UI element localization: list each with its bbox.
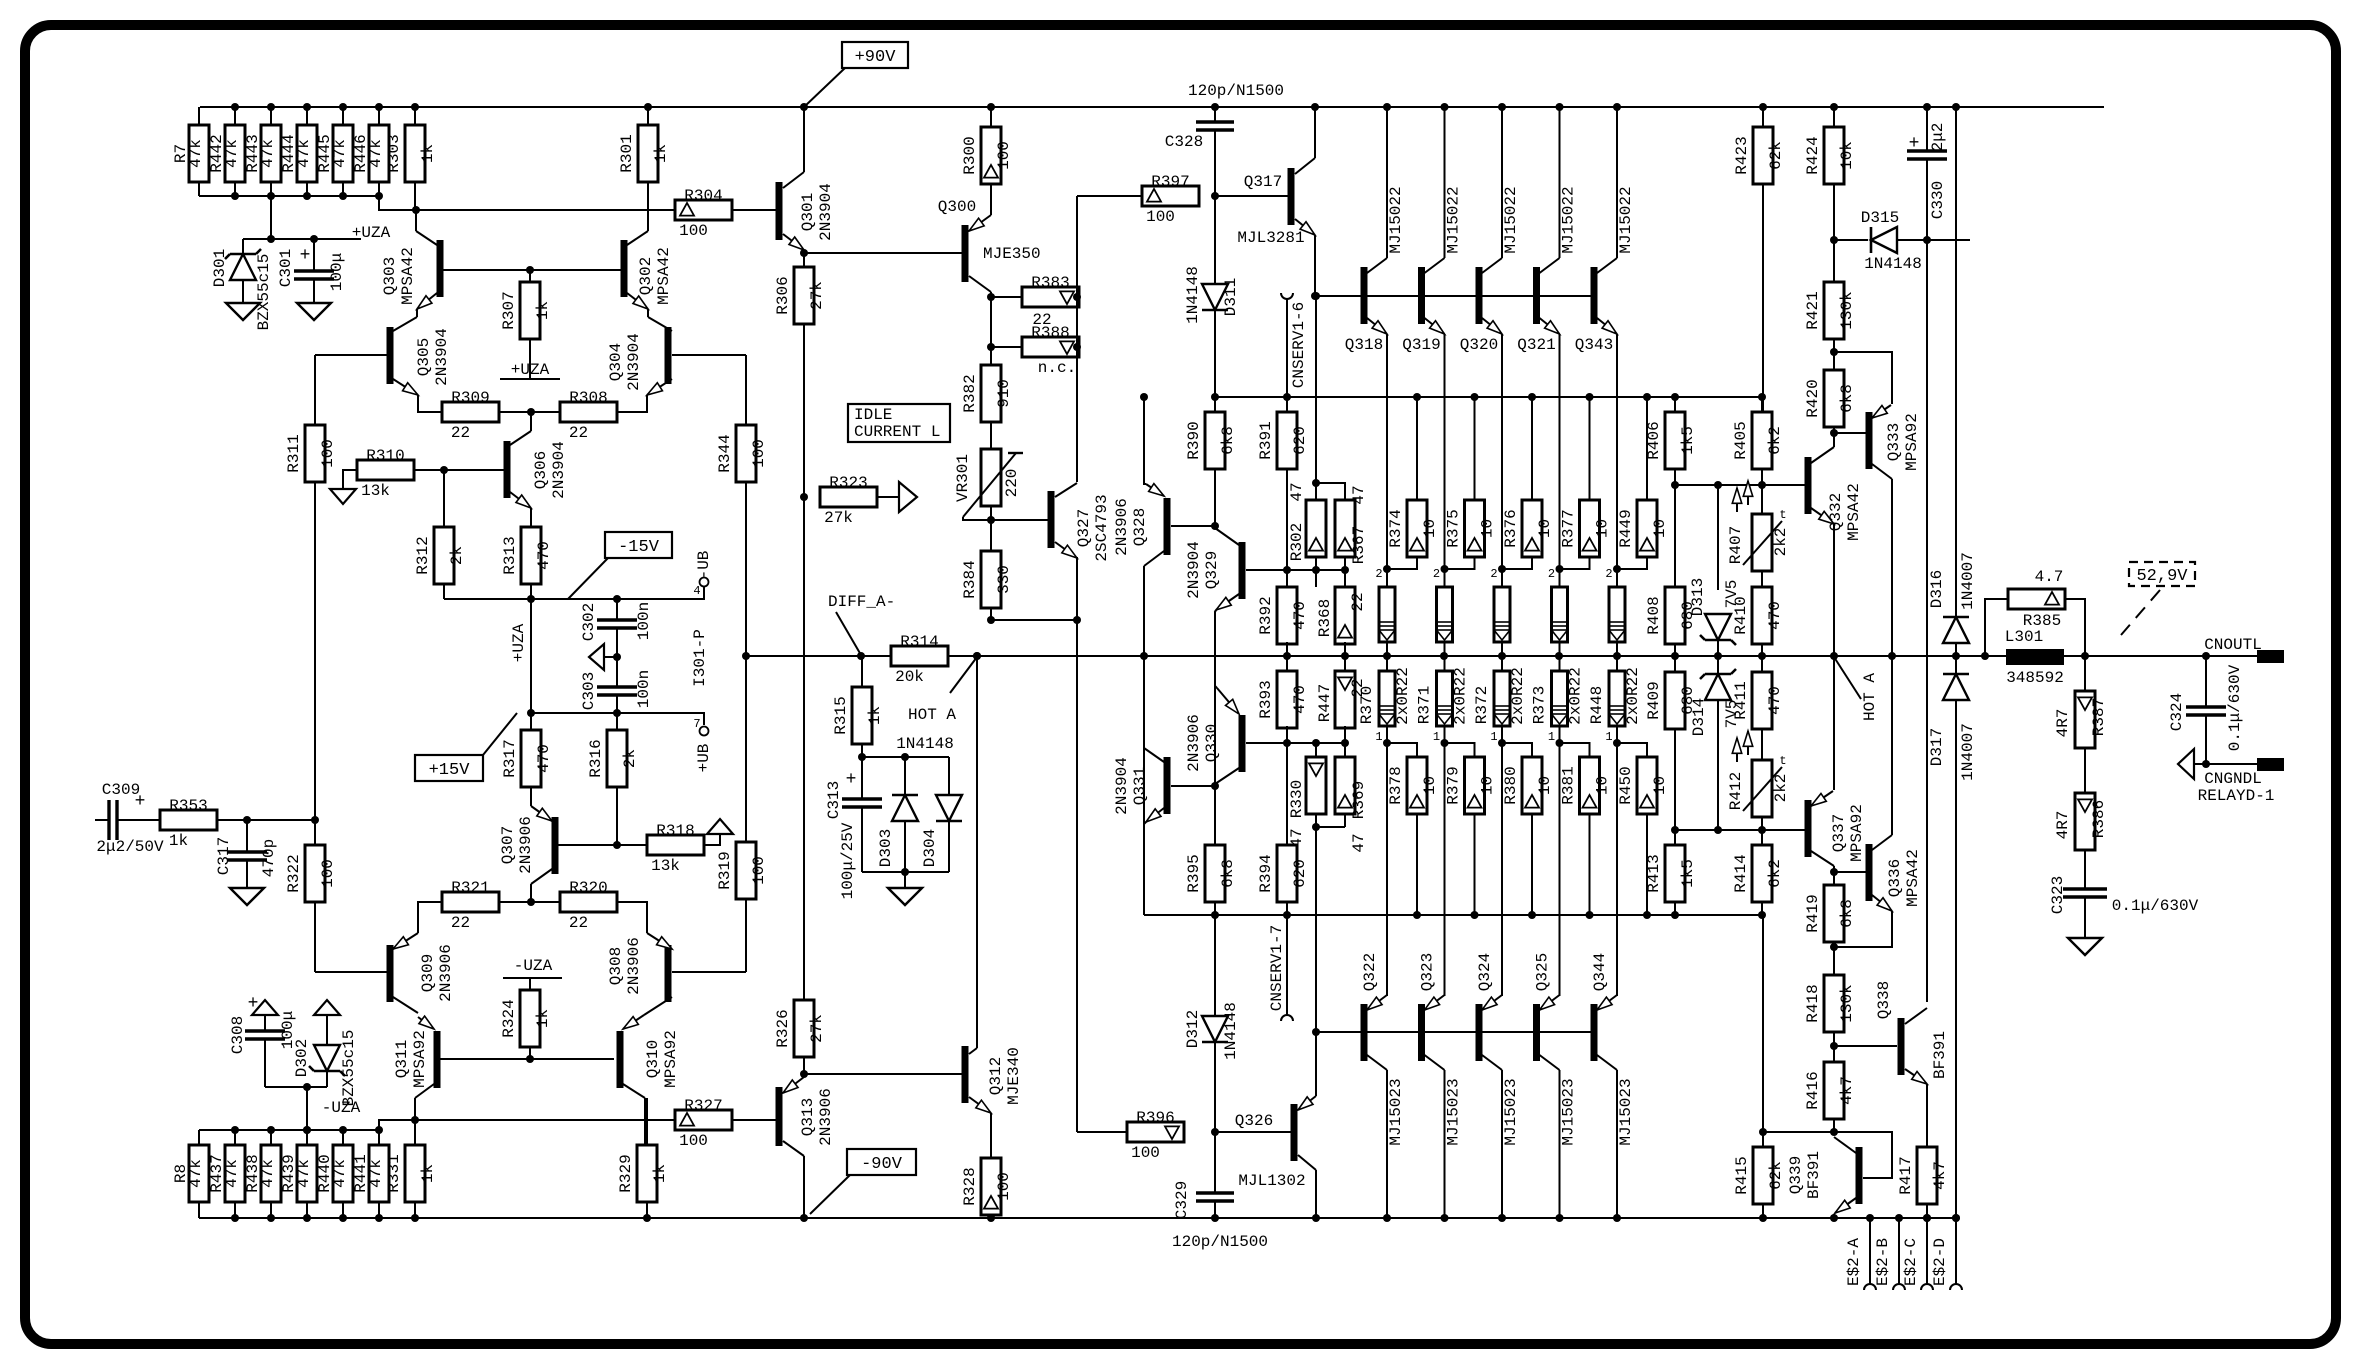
svg-text:2: 2 <box>1605 567 1612 581</box>
svg-text:D312: D312 <box>1184 1010 1202 1048</box>
resistor R390 6k8 <box>1214 397 1216 412</box>
svg-text:7: 7 <box>693 717 700 731</box>
svg-text:Q324: Q324 <box>1476 953 1494 991</box>
svg-text:6k8: 6k8 <box>1219 859 1237 888</box>
svg-text:R375: R375 <box>1445 509 1463 547</box>
svg-text:22: 22 <box>451 424 470 442</box>
svg-text:470: 470 <box>1766 601 1784 630</box>
svg-text:1: 1 <box>1605 730 1612 744</box>
svg-text:47k: 47k <box>259 139 277 168</box>
svg-text:-90V: -90V <box>861 1155 903 1174</box>
svg-text:10: 10 <box>1594 519 1612 538</box>
resistor R313 470 <box>530 584 532 599</box>
resistor R440 47k <box>342 1130 344 1145</box>
capacitor C323 0.1u/630V <box>2084 850 2086 889</box>
transistor Q302 MPSA42 <box>647 182 649 231</box>
svg-text:Q328: Q328 <box>1131 508 1149 546</box>
svg-text:MPSA42: MPSA42 <box>1845 483 1863 541</box>
svg-text:2N3906: 2N3906 <box>437 944 455 1002</box>
resistor R379 10 <box>1445 743 1475 757</box>
svg-text:R315: R315 <box>832 696 850 734</box>
wire +UZA stub <box>270 196 272 239</box>
ground at C313 <box>888 888 922 905</box>
svg-text:1: 1 <box>1548 730 1555 744</box>
resistor R301 1k <box>647 107 649 125</box>
svg-text:R311: R311 <box>285 434 303 472</box>
resistor R405 6k2 <box>1761 397 1763 412</box>
svg-text:Q320: Q320 <box>1460 336 1498 354</box>
resistor R446 47k <box>378 107 380 125</box>
resistor R7 47k <box>198 107 200 125</box>
resistor R387 4R7 <box>2084 656 2086 691</box>
svg-text:R421: R421 <box>1804 291 1822 329</box>
svg-text:R319: R319 <box>716 851 734 889</box>
svg-text:1k: 1k <box>419 144 437 163</box>
transistor Q325 MJ15023 <box>1559 743 1561 996</box>
resistor R310 13k <box>357 460 414 480</box>
svg-text:MJ15023: MJ15023 <box>1445 1078 1463 1145</box>
capacitor C301 100u <box>313 239 315 271</box>
resistor R388 n.c. <box>1022 337 1079 357</box>
svg-text:R406: R406 <box>1645 421 1663 459</box>
svg-text:27k: 27k <box>808 281 826 310</box>
svg-text:R376: R376 <box>1502 509 1520 547</box>
svg-text:47k: 47k <box>295 139 313 168</box>
resistor R344 100 <box>736 425 756 482</box>
svg-text:R396: R396 <box>1136 1109 1174 1127</box>
resistor R396 100 <box>1127 1122 1184 1142</box>
zener D314 7V5 <box>1717 656 1719 674</box>
diode D315 1N4148 <box>1834 239 1868 241</box>
connector pin E$2-A <box>1869 1218 1871 1284</box>
svg-text:2k: 2k <box>448 546 466 565</box>
transistor Q306 2N3904 <box>530 412 532 431</box>
svg-text:R370: R370 <box>1358 686 1376 724</box>
svg-text:6k8: 6k8 <box>1219 426 1237 455</box>
net label +UZA at R307 <box>500 378 560 380</box>
svg-text:10: 10 <box>1651 776 1669 795</box>
resistor R383 22 <box>1022 287 1079 307</box>
resistor R319 100 <box>745 899 747 972</box>
svg-text:-UZA: -UZA <box>514 957 553 975</box>
svg-text:6k8: 6k8 <box>1838 384 1856 413</box>
svg-text:R309: R309 <box>451 389 489 407</box>
svg-text:t: t <box>1779 508 1786 522</box>
svg-text:6k8: 6k8 <box>1838 899 1856 928</box>
diode D317 1N4007 <box>1955 656 1957 674</box>
svg-text:7V5: 7V5 <box>1723 580 1741 609</box>
svg-text:R368: R368 <box>1316 599 1334 637</box>
svg-text:C323: C323 <box>2049 876 2067 914</box>
svg-text:100: 100 <box>995 141 1013 170</box>
svg-text:2k2: 2k2 <box>1772 774 1790 803</box>
svg-text:R302: R302 <box>1288 523 1306 561</box>
svg-text:10: 10 <box>1479 519 1497 538</box>
resistor R378 10 <box>1387 743 1417 757</box>
resistor R439 47k <box>306 1130 308 1145</box>
svg-text:1N4007: 1N4007 <box>1959 552 1977 610</box>
wire clamp bottom <box>862 871 949 873</box>
svg-text:MJE340: MJE340 <box>1005 1047 1023 1105</box>
svg-text:2N3906: 2N3906 <box>1185 714 1203 772</box>
svg-text:D304: D304 <box>921 829 939 867</box>
svg-text:Q331: Q331 <box>1131 767 1149 805</box>
svg-text:RELAYD-1: RELAYD-1 <box>2198 787 2275 805</box>
svg-text:47k: 47k <box>331 1159 349 1188</box>
svg-text:R328: R328 <box>961 1167 979 1205</box>
resistor R391 620 <box>1286 397 1288 412</box>
svg-text:10: 10 <box>1479 776 1497 795</box>
svg-text:Q337: Q337 <box>1830 814 1848 852</box>
zener D313 7V5 <box>1717 485 1719 590</box>
svg-text:Q302: Q302 <box>637 257 655 295</box>
wire -UB bus <box>444 598 700 600</box>
wire +90V top rail <box>200 106 2104 108</box>
emitter resistor R373 2x0R22 lower <box>1559 656 1561 671</box>
resistor R424 10k <box>1833 107 1835 127</box>
resistor R386 4R7 <box>2084 748 2086 793</box>
resistor R328 100 <box>981 1158 1001 1215</box>
svg-text:R374: R374 <box>1387 509 1405 547</box>
svg-text:2: 2 <box>1375 567 1382 581</box>
svg-text:R300: R300 <box>961 136 979 174</box>
svg-text:100μ/25V: 100μ/25V <box>839 822 857 899</box>
resistor R353 1k <box>160 810 217 830</box>
svg-text:100: 100 <box>750 439 768 468</box>
svg-text:R369: R369 <box>1350 781 1368 819</box>
svg-text:MJ15022: MJ15022 <box>1617 186 1635 253</box>
svg-text:R313: R313 <box>501 536 519 574</box>
svg-text:R321: R321 <box>451 879 489 897</box>
svg-text:Q317: Q317 <box>1244 173 1282 191</box>
resistor R369 47 <box>1316 743 1345 757</box>
svg-text:680: 680 <box>1679 686 1697 715</box>
svg-text:Q305: Q305 <box>415 338 433 376</box>
svg-text:Q319: Q319 <box>1402 336 1440 354</box>
svg-text:100: 100 <box>1131 1144 1160 1162</box>
svg-text:R397: R397 <box>1151 173 1189 191</box>
svg-text:330: 330 <box>995 565 1013 594</box>
resistor R331 1k <box>414 1120 416 1145</box>
resistor R419 6k8 <box>1824 885 1844 942</box>
svg-text:R424: R424 <box>1804 136 1822 174</box>
svg-text:1N4007: 1N4007 <box>1959 723 1977 781</box>
svg-text:R314: R314 <box>900 633 938 651</box>
emitter resistor R372 2x0R22 lower <box>1501 656 1503 671</box>
svg-text:910: 910 <box>995 379 1013 408</box>
svg-text:t: t <box>1779 754 1786 768</box>
svg-text:1: 1 <box>1433 730 1440 744</box>
resistor R316 2k <box>616 713 618 730</box>
ground at C301 <box>297 303 331 320</box>
svg-text:4R7: 4R7 <box>2054 709 2072 738</box>
svg-text:C313: C313 <box>825 781 843 819</box>
resistor R393 470 <box>1277 671 1297 728</box>
svg-text:2N3904: 2N3904 <box>433 328 451 386</box>
svg-text:E$2-D: E$2-D <box>1931 1238 1949 1286</box>
svg-text:L301: L301 <box>2005 628 2043 646</box>
net arrow at R323 <box>899 482 917 512</box>
svg-text:2N3906: 2N3906 <box>625 937 643 995</box>
thermal arrows at R407 <box>1736 488 1738 512</box>
svg-text:R387: R387 <box>2090 698 2108 736</box>
zener D302 BZX55c15 <box>314 1000 340 1015</box>
wire R384 to idle column <box>991 619 1077 621</box>
svg-text:Q323: Q323 <box>1419 953 1437 991</box>
svg-text:R303: R303 <box>385 134 403 172</box>
resistor R418 130k <box>1824 975 1844 1032</box>
resistor R367 47 <box>1316 483 1345 500</box>
svg-text:E$2-B: E$2-B <box>1874 1238 1892 1286</box>
svg-text:R371: R371 <box>1416 686 1434 724</box>
svg-text:MPSA92: MPSA92 <box>662 1030 680 1088</box>
svg-text:R449: R449 <box>1617 509 1635 547</box>
svg-text:R367: R367 <box>1350 526 1368 564</box>
svg-text:0.1μ/630V: 0.1μ/630V <box>2112 897 2199 915</box>
transistor Q328 2N3906 <box>1146 484 1164 496</box>
svg-text:2μ2/50V: 2μ2/50V <box>96 838 164 856</box>
svg-text:MJ15023: MJ15023 <box>1502 1078 1520 1145</box>
resistor R321 22 <box>442 892 499 912</box>
svg-text:470: 470 <box>535 744 553 773</box>
transistor Q310 MPSA92 <box>623 1015 644 1029</box>
resistor R329 1k <box>646 1098 648 1145</box>
svg-text:R395: R395 <box>1185 854 1203 892</box>
svg-text:4R7: 4R7 <box>2054 811 2072 840</box>
svg-text:R301: R301 <box>618 134 636 172</box>
net callout -15V <box>605 532 672 558</box>
svg-text:470: 470 <box>1291 601 1309 630</box>
emitter resistor R370 2x0R22 upper <box>1386 569 1388 587</box>
svg-text:10k: 10k <box>1838 141 1856 170</box>
svg-text:D303: D303 <box>877 829 895 867</box>
svg-text:1N4148: 1N4148 <box>1222 1002 1240 1060</box>
resistor R377 10 <box>1589 397 1591 500</box>
svg-text:+UB: +UB <box>695 744 713 773</box>
wire Q303-Q302 base bus <box>443 269 621 271</box>
resistor R423 62k <box>1762 107 1764 127</box>
svg-text:BZX55c15: BZX55c15 <box>340 1030 358 1107</box>
wire -UZA node <box>265 1086 327 1088</box>
svg-text:R386: R386 <box>2090 800 2108 838</box>
ground at C317 <box>230 888 264 905</box>
svg-text:R331: R331 <box>385 1154 403 1192</box>
wire top bank bus <box>199 196 416 210</box>
svg-text:R391: R391 <box>1257 421 1275 459</box>
svg-text:D311: D311 <box>1222 278 1240 316</box>
svg-text:Q338: Q338 <box>1875 981 1893 1019</box>
wire driver bus top <box>1215 396 1763 398</box>
net arrow I301-P node <box>604 656 617 658</box>
svg-text:C302: C302 <box>580 603 598 641</box>
svg-text:R329: R329 <box>617 1154 635 1192</box>
svg-text:+UZA: +UZA <box>352 224 391 242</box>
resistor R309 22 <box>442 402 499 422</box>
transistor Q327 2SC4793 <box>991 519 1048 521</box>
svg-text:2N3904: 2N3904 <box>550 441 568 499</box>
svg-text:+: + <box>300 246 311 266</box>
resistor R447 22 <box>1344 656 1346 671</box>
wire left feedback column <box>314 355 316 425</box>
svg-text:10: 10 <box>1421 519 1439 538</box>
connector pin E$2-D <box>1955 1218 1957 1284</box>
svg-text:R324: R324 <box>500 999 518 1037</box>
svg-text:Q326: Q326 <box>1235 1112 1273 1130</box>
svg-text:1N4148: 1N4148 <box>1184 266 1202 324</box>
transistor Q313 2N3906 <box>776 1087 783 1146</box>
diode D304 1N4148 <box>936 795 962 821</box>
svg-text:E$2-A: E$2-A <box>1845 1238 1863 1286</box>
svg-text:Q339: Q339 <box>1787 1156 1805 1194</box>
inductor L301 348592 <box>2006 649 2064 665</box>
resistor R442 47k <box>234 107 236 125</box>
svg-text:470p: 470p <box>260 839 278 877</box>
resistor R303 1k <box>414 107 416 125</box>
transistor Q323 MJ15023 <box>1444 743 1446 996</box>
resistor R449 10 <box>1646 397 1648 500</box>
wire MJ15023 base bus <box>1316 1031 1591 1033</box>
svg-text:Q304: Q304 <box>607 343 625 381</box>
svg-text:100μ: 100μ <box>328 253 346 291</box>
svg-text:4k7: 4k7 <box>1931 1161 1949 1190</box>
transistor Q343 MJ15022 <box>1591 267 1598 324</box>
svg-text:D301: D301 <box>211 249 229 287</box>
svg-text:2N3904: 2N3904 <box>1113 757 1131 815</box>
svg-text:52,9V: 52,9V <box>2136 567 2188 586</box>
svg-text:R416: R416 <box>1804 1071 1822 1109</box>
wire Q333 emitter <box>1834 352 1892 404</box>
capacitor C303 100n <box>616 657 618 687</box>
svg-text:2x0R22: 2x0R22 <box>1567 667 1585 725</box>
svg-text:22: 22 <box>451 914 470 932</box>
trimmer VR301 220 <box>990 422 992 449</box>
resistor R395 6k8 <box>1205 845 1225 902</box>
svg-text:Q333: Q333 <box>1885 423 1903 461</box>
capacitor C309 2u2/50V <box>95 819 109 821</box>
resistor R411 470 <box>1761 656 1763 672</box>
transistor Q332 MPSA42 <box>1805 457 1812 514</box>
svg-text:R415: R415 <box>1733 1156 1751 1194</box>
svg-text:IDLE: IDLE <box>854 406 892 424</box>
svg-text:Q306: Q306 <box>532 451 550 489</box>
svg-text:Q332: Q332 <box>1827 493 1845 531</box>
resistor R437 47k <box>234 1130 236 1145</box>
svg-text:4.7: 4.7 <box>2035 568 2064 586</box>
transistor Q305 2N3904 <box>393 317 417 331</box>
svg-text:10: 10 <box>1536 776 1554 795</box>
resistor R324 1k <box>529 978 531 990</box>
resistor R381 10 <box>1560 743 1590 757</box>
svg-text:C329: C329 <box>1173 1181 1191 1219</box>
svg-text:1k: 1k <box>651 1164 669 1183</box>
trimmer R412 2k2 <box>1761 760 1763 830</box>
svg-text:47k: 47k <box>223 139 241 168</box>
svg-text:47k: 47k <box>331 139 349 168</box>
svg-text:20k: 20k <box>895 668 924 686</box>
resistor R443 47k <box>270 107 272 125</box>
svg-text:120p/N1500: 120p/N1500 <box>1172 1233 1268 1251</box>
svg-text:D316: D316 <box>1928 570 1946 608</box>
svg-text:R372: R372 <box>1473 686 1491 724</box>
svg-text:130k: 130k <box>1838 984 1856 1022</box>
svg-text:DIFF_A-: DIFF_A- <box>828 593 895 611</box>
resistor R300 100 <box>990 107 992 127</box>
connector pin E$2-C <box>1926 1218 1928 1284</box>
svg-text:1N4148: 1N4148 <box>1864 255 1922 273</box>
svg-text:620: 620 <box>1291 426 1309 455</box>
resistor R409 680 <box>1674 656 1676 672</box>
zener D301 BZX55c15 <box>242 239 244 254</box>
svg-text:MJE350: MJE350 <box>983 245 1041 263</box>
svg-text:+: + <box>1909 134 1920 154</box>
svg-text:R413: R413 <box>1645 854 1663 892</box>
svg-text:Q313: Q313 <box>799 1098 817 1136</box>
svg-text:MJ15022: MJ15022 <box>1560 186 1578 253</box>
net arrow at R310 <box>330 489 356 504</box>
svg-text:1: 1 <box>1490 730 1497 744</box>
svg-text:D302: D302 <box>293 1039 311 1077</box>
svg-text:100: 100 <box>750 856 768 885</box>
transistor Q308 2N3906 <box>665 945 672 1002</box>
svg-text:R447: R447 <box>1316 684 1334 722</box>
resistor R384 330 <box>981 551 1001 608</box>
svg-text:47: 47 <box>1350 833 1368 852</box>
resistor R304 100 <box>675 200 732 220</box>
svg-text:+UZA: +UZA <box>510 623 528 662</box>
transistor Q339 BF391 <box>1834 1132 1892 1178</box>
emitter resistor R448 2x0R22 upper <box>1616 569 1618 587</box>
wire Q337 base line <box>1675 829 1805 831</box>
resistor R8 47k <box>198 1130 200 1145</box>
pin 4 -UB <box>700 587 704 599</box>
svg-text:10: 10 <box>1421 776 1439 795</box>
svg-text:MPSA92: MPSA92 <box>1848 804 1866 862</box>
resistor R368 22 <box>1335 587 1355 644</box>
svg-text:VR301: VR301 <box>954 454 972 502</box>
svg-text:MPSA42: MPSA42 <box>399 247 417 305</box>
resistor R408 680 <box>1674 485 1676 587</box>
trimmer R407 2k2 <box>1761 485 1763 514</box>
resistor R376 10 <box>1531 397 1533 500</box>
svg-text:R306: R306 <box>774 276 792 314</box>
transistor Q318 MJ15022 <box>1361 267 1368 324</box>
resistor R326 27k <box>794 1000 814 1057</box>
svg-text:1k5: 1k5 <box>1679 426 1697 455</box>
svg-text:D317: D317 <box>1928 728 1946 766</box>
net callout +90V <box>842 42 908 68</box>
svg-text:R380: R380 <box>1502 766 1520 804</box>
wire Q338 collector column <box>1926 240 1928 1002</box>
resistor R306 27k <box>803 253 805 267</box>
svg-text:CNOUTL: CNOUTL <box>2204 636 2262 654</box>
resistor R311 100 <box>305 425 325 482</box>
svg-text:C308: C308 <box>229 1016 247 1054</box>
svg-text:Q312: Q312 <box>987 1057 1005 1095</box>
capacitor C317 470p <box>246 820 248 852</box>
svg-text:R316: R316 <box>587 739 605 777</box>
transistor Q301 2N3904 <box>776 182 783 240</box>
resistor R302 47 <box>1315 296 1317 500</box>
svg-text:HOT A: HOT A <box>1861 673 1879 721</box>
svg-text:100n: 100n <box>635 670 653 708</box>
svg-text:MPSA92: MPSA92 <box>411 1030 429 1088</box>
svg-text:1k: 1k <box>534 1009 552 1028</box>
svg-text:R317: R317 <box>501 739 519 777</box>
svg-text:100n: 100n <box>635 602 653 640</box>
svg-text:R450: R450 <box>1617 766 1635 804</box>
svg-text:CNGNDL: CNGNDL <box>2204 770 2262 788</box>
svg-text:R377: R377 <box>1560 509 1578 547</box>
